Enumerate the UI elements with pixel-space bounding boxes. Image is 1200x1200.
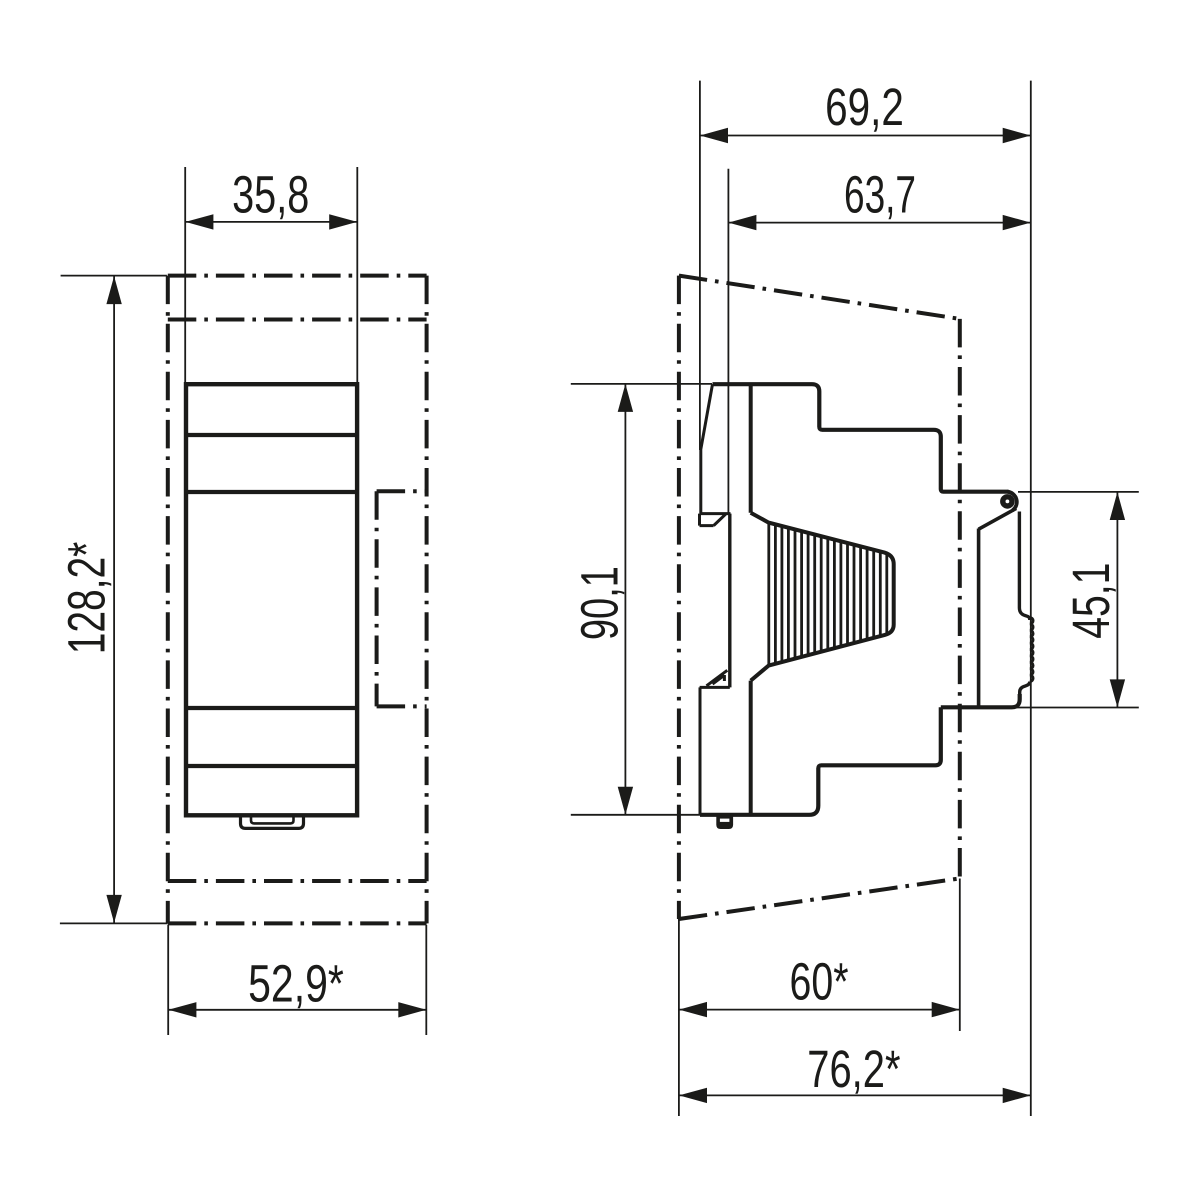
svg-text:45,1: 45,1: [1062, 563, 1121, 639]
side view terminal wedge outline: [751, 513, 894, 681]
dimension 69,2 line and arrowheads: [700, 135, 1031, 137]
front view device body fill: [186, 384, 357, 815]
svg-text:60*: 60*: [790, 953, 849, 1012]
dimension 52,9 arrowheads: [168, 1002, 426, 1017]
front view terminal divider lines: [186, 435, 357, 766]
side view body silhouette fill: [701, 384, 1032, 815]
side view distribution board cover dash-dot outline: [679, 276, 960, 919]
dimension 60 line and arrowheads: [679, 1009, 960, 1011]
front view cover cutout dash-dot outline: [168, 276, 427, 924]
side view front/body divider lines: [749, 385, 753, 814]
DIN rail clip hinge knuckle: [1007, 492, 1016, 511]
dimension 35,8 arrowheads: [185, 214, 357, 229]
svg-text:128,2*: 128,2*: [58, 542, 117, 655]
side view extension lines: [571, 81, 1139, 1116]
side view lower rail claw: [700, 670, 730, 815]
dimension 35,8 extension and dimension lines: [185, 167, 357, 382]
DIN rail clip hinge pin: [1000, 494, 1015, 509]
front view bottom release tab: [241, 816, 304, 829]
dimension 90,1 line and arrowheads: [624, 384, 626, 815]
side view upper rail claw: [700, 514, 731, 526]
side view bottom release tab: [716, 815, 733, 829]
side view bottom edge and lower step outline: [700, 694, 1020, 815]
side view front face slant: [701, 384, 713, 513]
dimension 63,7 line and arrowheads: [728, 222, 1030, 224]
svg-text:69,2: 69,2: [825, 78, 904, 137]
side view rail slot rear edge: [728, 514, 731, 688]
svg-text:90,1: 90,1: [570, 566, 629, 640]
svg-text:76,2*: 76,2*: [807, 1040, 900, 1099]
dimension 52,9 extension and dimension lines: [168, 925, 426, 1035]
front view device outline: [186, 384, 357, 815]
dimension 45,1 line and arrowheads: [1116, 492, 1118, 707]
DIN rail clip lever: [979, 508, 1034, 706]
side view upper body outline: [713, 384, 1009, 492]
svg-text:35,8: 35,8: [232, 166, 309, 225]
dimension 76,2 line and arrowheads: [679, 1094, 1031, 1096]
svg-text:52,9*: 52,9*: [248, 955, 344, 1014]
dimension 128,2 arrowheads: [106, 276, 121, 923]
dimension 128,2 extension and dimension lines: [60, 276, 168, 924]
svg-text:63,7: 63,7: [844, 166, 916, 225]
